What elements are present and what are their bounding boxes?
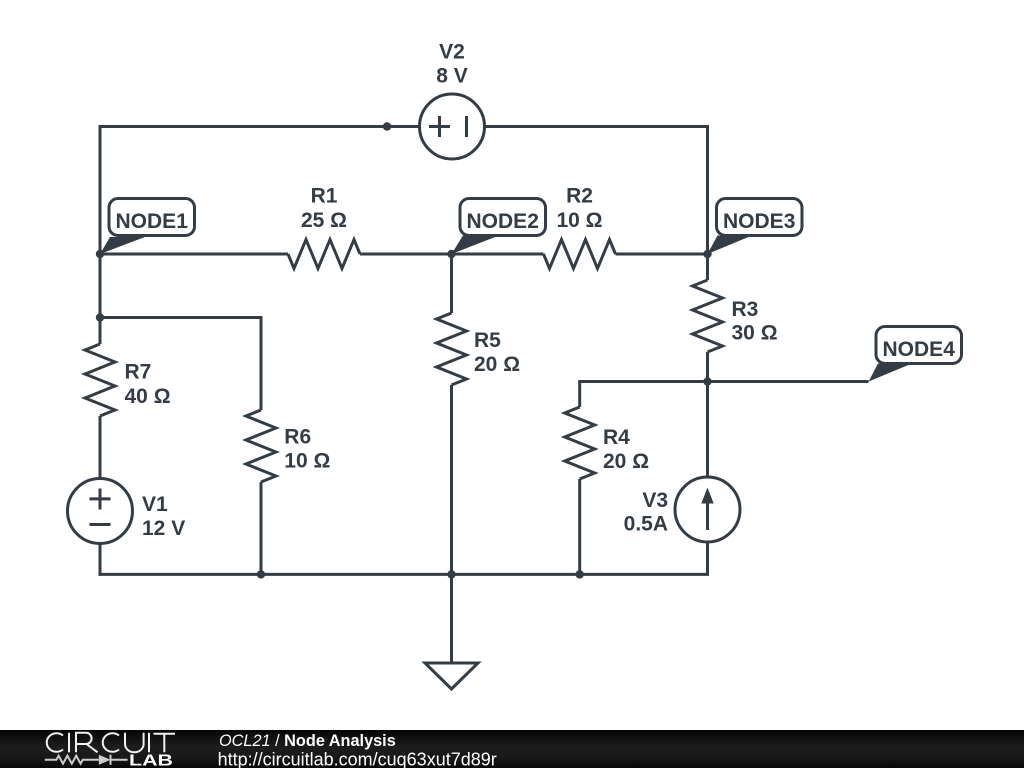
wire V1 bottom bbox=[99, 544, 102, 576]
wire node1 row middle bbox=[360, 253, 544, 256]
voltage source V2 bbox=[420, 94, 485, 159]
voltage source V1 bbox=[68, 479, 133, 544]
logo CIRCUIT bbox=[47, 733, 175, 753]
wire R6 bottom bbox=[260, 482, 263, 574]
svg-text:R4: R4 bbox=[603, 426, 630, 449]
resistor R6 bbox=[246, 410, 276, 482]
wire right vertical upper bbox=[706, 125, 709, 280]
svg-text:http://circuitlab.com/cuq63xut: http://circuitlab.com/cuq63xut7d89r bbox=[218, 749, 497, 768]
junction dot R5 bottom bbox=[447, 570, 455, 578]
flag NODE4 bbox=[869, 327, 962, 382]
node dot NODE2 bbox=[447, 250, 455, 258]
wire NODE4 row bbox=[708, 380, 869, 383]
svg-text:V3: V3 bbox=[642, 489, 668, 512]
svg-text:V1: V1 bbox=[142, 493, 168, 516]
svg-text:30 Ω: 30 Ω bbox=[732, 322, 778, 345]
resistor R2 bbox=[544, 240, 616, 269]
svg-text:NODE1: NODE1 bbox=[116, 210, 189, 233]
junction dot node4 row bbox=[703, 377, 711, 385]
svg-text:R3: R3 bbox=[732, 298, 759, 321]
junction dot branch bbox=[96, 313, 104, 321]
svg-text:R5: R5 bbox=[474, 329, 501, 352]
wire top left segment bbox=[100, 125, 420, 128]
wire R5 top bbox=[450, 254, 453, 313]
wire R5 bottom bbox=[450, 385, 453, 574]
svg-text:R6: R6 bbox=[284, 426, 311, 449]
wire left vertical upper bbox=[99, 125, 102, 344]
svg-text:20 Ω: 20 Ω bbox=[474, 353, 520, 376]
svg-text:NODE2: NODE2 bbox=[467, 210, 539, 233]
svg-text:25 Ω: 25 Ω bbox=[301, 209, 347, 232]
svg-text:NODE3: NODE3 bbox=[723, 210, 795, 233]
wire V3 bottom bbox=[100, 542, 709, 576]
svg-text:LAB: LAB bbox=[129, 752, 173, 768]
svg-text:R2: R2 bbox=[566, 185, 593, 208]
resistor R1 bbox=[288, 240, 360, 269]
junction dot R6 bottom bbox=[257, 570, 265, 578]
wire top right segment bbox=[485, 125, 708, 128]
svg-text:12 V: 12 V bbox=[142, 517, 185, 540]
svg-text:R1: R1 bbox=[311, 185, 338, 208]
resistor R4 bbox=[565, 407, 595, 479]
resistor R7 bbox=[85, 344, 115, 416]
flag NODE3 bbox=[708, 199, 803, 255]
svg-text:NODE4: NODE4 bbox=[883, 338, 956, 361]
flag NODE2 bbox=[452, 199, 546, 255]
resistor R3 bbox=[693, 280, 723, 352]
wire R4 branch top bbox=[580, 382, 708, 408]
junction dot R4 bottom bbox=[576, 570, 584, 578]
wire node1 row right bbox=[616, 253, 708, 256]
svg-text:V2: V2 bbox=[439, 41, 465, 64]
svg-text:10 Ω: 10 Ω bbox=[556, 209, 602, 232]
logo schematic doodle bbox=[45, 755, 128, 765]
svg-text:40 Ω: 40 Ω bbox=[125, 385, 171, 408]
wire ground stem bbox=[450, 574, 453, 663]
junction dot on top wire bbox=[383, 122, 391, 130]
wire R3 bottom to junction bbox=[706, 352, 709, 382]
wire R7 to V1 bbox=[99, 416, 102, 479]
wire V3 top bbox=[706, 382, 709, 478]
svg-text:0.5A: 0.5A bbox=[624, 513, 668, 536]
current source V3 bbox=[675, 477, 740, 542]
svg-text:20 Ω: 20 Ω bbox=[603, 450, 649, 473]
node dot NODE3 bbox=[703, 250, 711, 258]
wire branch node1 to R6 bbox=[100, 318, 261, 411]
ground bbox=[425, 663, 478, 689]
resistor R5 bbox=[437, 313, 467, 385]
wire node1 row left bbox=[100, 253, 288, 256]
svg-text:R7: R7 bbox=[125, 361, 152, 384]
svg-text:8 V: 8 V bbox=[436, 65, 468, 88]
flag NODE1 bbox=[100, 199, 195, 255]
node dot NODE1 bbox=[96, 250, 104, 258]
svg-text:10 Ω: 10 Ω bbox=[284, 450, 330, 473]
svg-text:OCL21 / Node Analysis: OCL21 / Node Analysis bbox=[219, 732, 396, 750]
wire R4 bottom bbox=[578, 479, 581, 574]
